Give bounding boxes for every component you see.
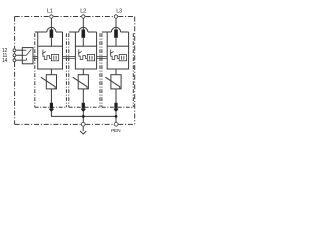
svg-text:14: 14 xyxy=(2,58,8,64)
thermal disconnector F2 (black) xyxy=(82,30,86,38)
wire disconnector bypass left module 1 xyxy=(35,31,47,33)
wire stub left to spark gap box 2 xyxy=(74,32,76,46)
terminal L2 (circle) xyxy=(82,15,85,18)
remote signalling contact box K1 xyxy=(22,48,33,64)
wire terminal 12 to contact box xyxy=(16,49,22,51)
terminal L3 (circle) xyxy=(114,15,117,18)
varistor R2 xyxy=(73,75,89,89)
wire stub left to spark gap box 3 xyxy=(106,32,108,46)
varistor R1 xyxy=(41,75,57,89)
spark gap box U1 xyxy=(38,46,63,69)
wire disconnector to spark gap box 1 xyxy=(50,38,52,46)
disconnector arc module 2 xyxy=(79,27,88,32)
wire L3 terminal to disconnector F3 xyxy=(115,19,117,30)
plug-in pin contact module 2 (black) xyxy=(81,103,86,112)
terminal 12 (circle) xyxy=(13,49,16,52)
wire spark gap box to varistor 2 xyxy=(82,69,84,75)
wire disconnector bypass right module 2 xyxy=(88,31,97,33)
wire disconnector bypass right module 3 xyxy=(121,31,129,33)
spark gap icon U1 xyxy=(42,50,59,61)
earth arrow xyxy=(80,126,86,134)
terminal 11 (circle) xyxy=(13,54,16,57)
wire stub right to spark gap box 3 xyxy=(128,32,130,46)
wire spark gap box to varistor 1 xyxy=(50,69,52,75)
spark gap box U3 xyxy=(107,46,128,69)
outer enclosure border top xyxy=(15,16,135,18)
link lines module 2 to module 3 xyxy=(97,57,108,59)
wire L2 terminal to disconnector F2 xyxy=(82,19,84,30)
svg-text:L2: L2 xyxy=(80,8,86,14)
wire terminal 14 to contact box xyxy=(16,59,22,61)
terminal 14 (circle) xyxy=(13,59,16,62)
spark gap icon U3 xyxy=(110,50,127,61)
changeover contact symbol xyxy=(22,50,31,61)
wire module 2 pin down xyxy=(82,112,84,122)
outer enclosure border right xyxy=(134,17,136,125)
wire disconnector to spark gap box 3 xyxy=(115,38,117,46)
spark gap icon U2 xyxy=(78,50,95,61)
disconnector arc module 1 xyxy=(47,27,56,32)
spark gap box U2 xyxy=(75,46,96,69)
wire L1 terminal to disconnector F1 xyxy=(50,19,52,30)
plug-in pin contact module 1 (black) xyxy=(49,103,54,112)
disconnector arc module 3 xyxy=(111,27,120,32)
wire stub right to spark gap box 2 xyxy=(96,32,98,46)
earth terminal circle xyxy=(81,122,85,126)
thermal disconnector F3 (black) xyxy=(114,30,118,38)
svg-text:PEN: PEN xyxy=(111,128,121,134)
wire stub left to spark gap box 1 xyxy=(37,32,39,46)
svg-text:L1: L1 xyxy=(47,8,53,14)
wire disconnector to spark gap box 2 xyxy=(82,38,84,46)
outer enclosure border bottom / PEN line xyxy=(15,123,135,125)
junction node module 3 xyxy=(115,115,118,118)
PEN terminal circle xyxy=(114,122,118,126)
wire disconnector bypass left module 3 xyxy=(102,31,112,33)
wire disconnector bypass left module 2 xyxy=(69,31,79,33)
wire varistor to plug pin 2 xyxy=(82,89,84,103)
module 1 dashed enclosure xyxy=(35,33,67,107)
thermal disconnector F1 (black) xyxy=(50,30,54,38)
varistor R3 xyxy=(105,75,121,89)
module 2 dashed enclosure xyxy=(69,33,100,107)
wire disconnector bypass right module 1 xyxy=(56,31,63,33)
wire spark gap box to varistor 3 xyxy=(115,69,117,75)
wire stub right to spark gap box 1 xyxy=(62,32,64,46)
link lines module 1 to module 2 xyxy=(63,57,76,59)
terminal L1 (circle) xyxy=(50,15,53,18)
link lines contact box to module 1 xyxy=(33,57,38,59)
svg-text:L3: L3 xyxy=(116,8,122,14)
wire varistor to plug pin 1 xyxy=(50,89,52,103)
outer enclosure border left xyxy=(14,17,16,125)
module 3 dashed enclosure xyxy=(102,33,133,107)
wire module 3 pin down xyxy=(115,112,117,122)
plug-in pin contact module 3 (black) xyxy=(113,103,118,112)
wire module 1 pin to PEN bus xyxy=(51,112,116,116)
wire varistor to plug pin 3 xyxy=(115,89,117,103)
wire terminal 11 to contact box xyxy=(16,54,22,56)
junction node module 2 xyxy=(82,115,85,118)
